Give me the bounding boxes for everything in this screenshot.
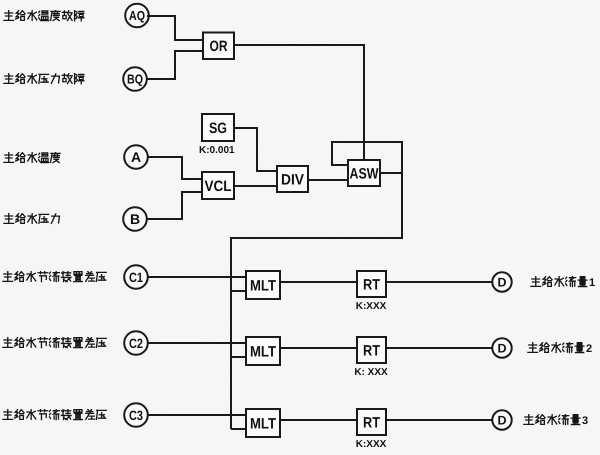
label throttle device differential pressure 3 xyxy=(3,409,106,419)
svg-text:K:XXX: K:XXX xyxy=(356,301,387,312)
svg-text:MLT: MLT xyxy=(250,343,276,360)
block MLT1 multiplier xyxy=(246,271,280,299)
input circle A xyxy=(124,145,148,169)
wire C1 to MLT1 input 1 xyxy=(148,276,246,278)
label main feedwater flow 2 xyxy=(528,342,592,355)
wire C2 to MLT2 input 1 xyxy=(148,342,246,344)
svg-text:MLT: MLT xyxy=(250,415,276,432)
block ASW analog switch xyxy=(348,160,380,186)
label main feedwater flow 3 xyxy=(524,414,588,427)
label main feedwater pressure fault xyxy=(4,73,84,83)
block OR U1 xyxy=(203,33,234,60)
block DIV xyxy=(277,166,308,192)
wire RT3 output to D3 xyxy=(386,419,492,421)
svg-text:D: D xyxy=(497,414,506,428)
wire bus branch to MLT3 input 2 xyxy=(231,428,246,430)
wire RT2 output to D2 xyxy=(386,347,492,349)
label main feedwater temperature fault xyxy=(4,10,84,21)
wire ASW output feedback loop xyxy=(332,142,402,173)
svg-text:RT: RT xyxy=(363,276,380,293)
wire MLT3 output to RT3 xyxy=(280,419,357,421)
label throttle device differential pressure 1 xyxy=(3,271,106,281)
svg-text:K:0.001: K:0.001 xyxy=(199,145,235,156)
svg-text:BQ: BQ xyxy=(127,72,143,87)
svg-text:RT: RT xyxy=(363,342,380,359)
value label K:XXX of RT2 xyxy=(354,367,388,378)
value label K:XXX of RT1 xyxy=(356,301,387,312)
label main feedwater pressure xyxy=(4,213,60,223)
svg-text:OR: OR xyxy=(210,38,228,55)
block RT3 xyxy=(357,409,386,435)
wire OR output to ASW top input xyxy=(234,45,364,160)
svg-text:K: XXX: K: XXX xyxy=(354,367,388,378)
wire B to VCL input 2 xyxy=(147,192,202,219)
svg-text:A: A xyxy=(131,149,141,165)
svg-text:MLT: MLT xyxy=(250,277,276,294)
block MLT2 multiplier xyxy=(246,337,280,365)
value label K:XXX of RT3 xyxy=(356,439,387,450)
output circle D3 xyxy=(492,410,511,429)
wire RT1 output to D1 xyxy=(386,281,492,283)
wire MLT2 output to RT2 xyxy=(280,347,357,349)
svg-text:C1: C1 xyxy=(129,270,143,285)
wire bus branch to MLT2 input 2 xyxy=(231,356,246,358)
wire BQ to OR input 2 xyxy=(147,51,204,79)
input circle B xyxy=(123,207,147,231)
block RT2 xyxy=(357,337,386,363)
wire SG output to DIV input 1 xyxy=(234,128,277,171)
wire AQ to OR input 1 xyxy=(147,16,204,40)
input circle AQ xyxy=(125,4,149,28)
label throttle device differential pressure 2 xyxy=(3,337,106,347)
label main feedwater flow 1 xyxy=(531,276,595,289)
input circle C3 xyxy=(124,403,148,427)
svg-text:C2: C2 xyxy=(129,336,143,351)
svg-text:AQ: AQ xyxy=(129,8,145,23)
svg-text:VCL: VCL xyxy=(205,178,232,195)
wire VCL output to DIV input 2 xyxy=(234,185,277,187)
block SG constant xyxy=(202,114,234,141)
block RT1 xyxy=(357,271,386,297)
svg-text:C3: C3 xyxy=(129,408,143,423)
wire C3 to MLT3 input 1 xyxy=(148,414,246,416)
wire MLT1 output to RT1 xyxy=(280,281,357,283)
svg-text:RT: RT xyxy=(363,414,380,431)
svg-text:K:XXX: K:XXX xyxy=(356,439,387,450)
svg-text:2: 2 xyxy=(586,343,592,355)
svg-text:D: D xyxy=(497,342,506,356)
label main feedwater temperature xyxy=(4,152,60,162)
svg-text:SG: SG xyxy=(209,120,227,137)
output circle D1 xyxy=(492,272,511,291)
input circle C2 xyxy=(124,331,148,355)
svg-text:ASW: ASW xyxy=(350,165,380,182)
input circle C1 xyxy=(124,265,148,289)
value label K:0.001 xyxy=(199,145,235,156)
svg-text:DIV: DIV xyxy=(281,171,304,188)
wire A to VCL input 1 xyxy=(148,157,202,179)
svg-text:D: D xyxy=(497,276,506,290)
wire bus branch to MLT1 input 2 xyxy=(231,290,246,292)
block MLT3 multiplier xyxy=(246,409,280,437)
wire ASW output to distribution bus xyxy=(231,173,402,429)
svg-text:3: 3 xyxy=(582,415,588,427)
svg-text:B: B xyxy=(130,211,140,227)
output circle D2 xyxy=(492,338,511,357)
input circle BQ xyxy=(123,67,147,91)
wire DIV output to ASW input xyxy=(308,179,348,181)
block VCL xyxy=(202,172,234,199)
svg-text:1: 1 xyxy=(589,277,595,289)
